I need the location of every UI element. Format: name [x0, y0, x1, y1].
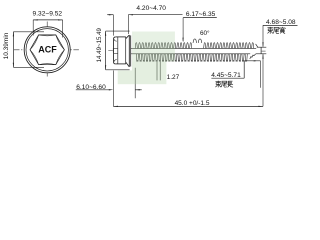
svg-text:9.32~9.52: 9.32~9.52 — [33, 11, 63, 18]
hex chamfer arcs — [56, 35, 65, 50]
centerline vertical (head top view) — [46, 22, 48, 78]
axis dash at tip — [262, 50, 267, 52]
flange outer circle — [24, 27, 70, 73]
svg-text:10.39min: 10.39min — [3, 32, 10, 59]
hex internal corner line — [117, 37, 119, 64]
svg-text:4.20~4.70: 4.20~4.70 — [136, 5, 166, 12]
centerline horizontal (head top view) — [14, 49, 80, 51]
svg-text:60°: 60° — [200, 29, 210, 37]
hex right face line — [125, 37, 127, 64]
flange bearing face lines — [128, 35, 130, 67]
flange inner circle — [26, 29, 68, 71]
hex hidden core lines — [114, 48, 118, 50]
threads top loops — [135, 43, 192, 49]
label tail-length chinese (shu wei chang) — [215, 80, 220, 82]
svg-text:14.49~15.49: 14.49~15.49 — [96, 27, 103, 62]
axis dash in flange/thread gap — [131, 50, 135, 52]
drill point taper bottom (with runout teeth) — [250, 54, 256, 59]
svg-text:ACF: ACF — [38, 45, 57, 55]
label tail-width chinese (shu wei kuan) — [267, 27, 272, 29]
screw axis centerline — [108, 49, 116, 51]
svg-text:1.27: 1.27 — [167, 74, 180, 81]
screw head (hex + flange side view) — [114, 35, 131, 67]
threads bottom loops — [136, 54, 247, 62]
pinched tail stub — [257, 46, 267, 48]
thread core lines — [131, 47, 256, 49]
green highlight C below head — [118, 70, 132, 84]
hexagon (head) — [30, 35, 64, 65]
hex chamfer corner arcs — [114, 39, 117, 41]
drill point taper top — [256, 44, 258, 47]
green highlight B below threads — [132, 62, 166, 85]
svg-text:6.17~6.35: 6.17~6.35 — [186, 11, 216, 18]
svg-text:4.45~5.71: 4.45~5.71 — [211, 72, 241, 79]
flange cone edges — [126, 35, 130, 39]
green highlight A over thread start — [132, 32, 175, 62]
